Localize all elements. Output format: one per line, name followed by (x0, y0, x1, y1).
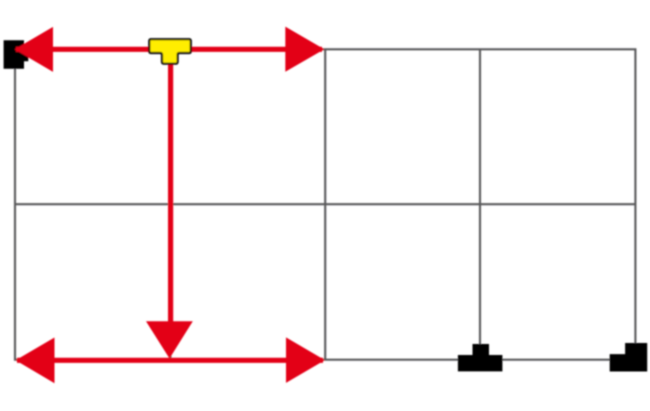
red bottom dimension shaft (17, 358, 323, 363)
grid horizontal middle line y=204 (15, 203, 635, 205)
grid vertical line x=170 (hidden under red dimension line) (169, 49, 171, 359)
grid vertical line x=480 (479, 49, 481, 359)
black tee connector bottom-middle (458, 344, 503, 371)
yellow tee connector (highlighted) (149, 39, 191, 64)
red bottom-right arrowhead (286, 337, 325, 383)
red vertical dimension shaft (168, 50, 173, 326)
red top-right arrowhead (285, 27, 324, 72)
red down arrowhead (146, 321, 193, 358)
black corner connector top-left (4, 40, 29, 69)
grid vertical line x=325 (324, 49, 326, 359)
red top dimension shaft (16, 47, 322, 52)
black corner connector bottom-right (610, 343, 648, 372)
red top-left arrowhead (15, 27, 53, 72)
red bottom-left arrowhead (16, 338, 55, 384)
grid frame outer rectangle (15, 49, 635, 359)
